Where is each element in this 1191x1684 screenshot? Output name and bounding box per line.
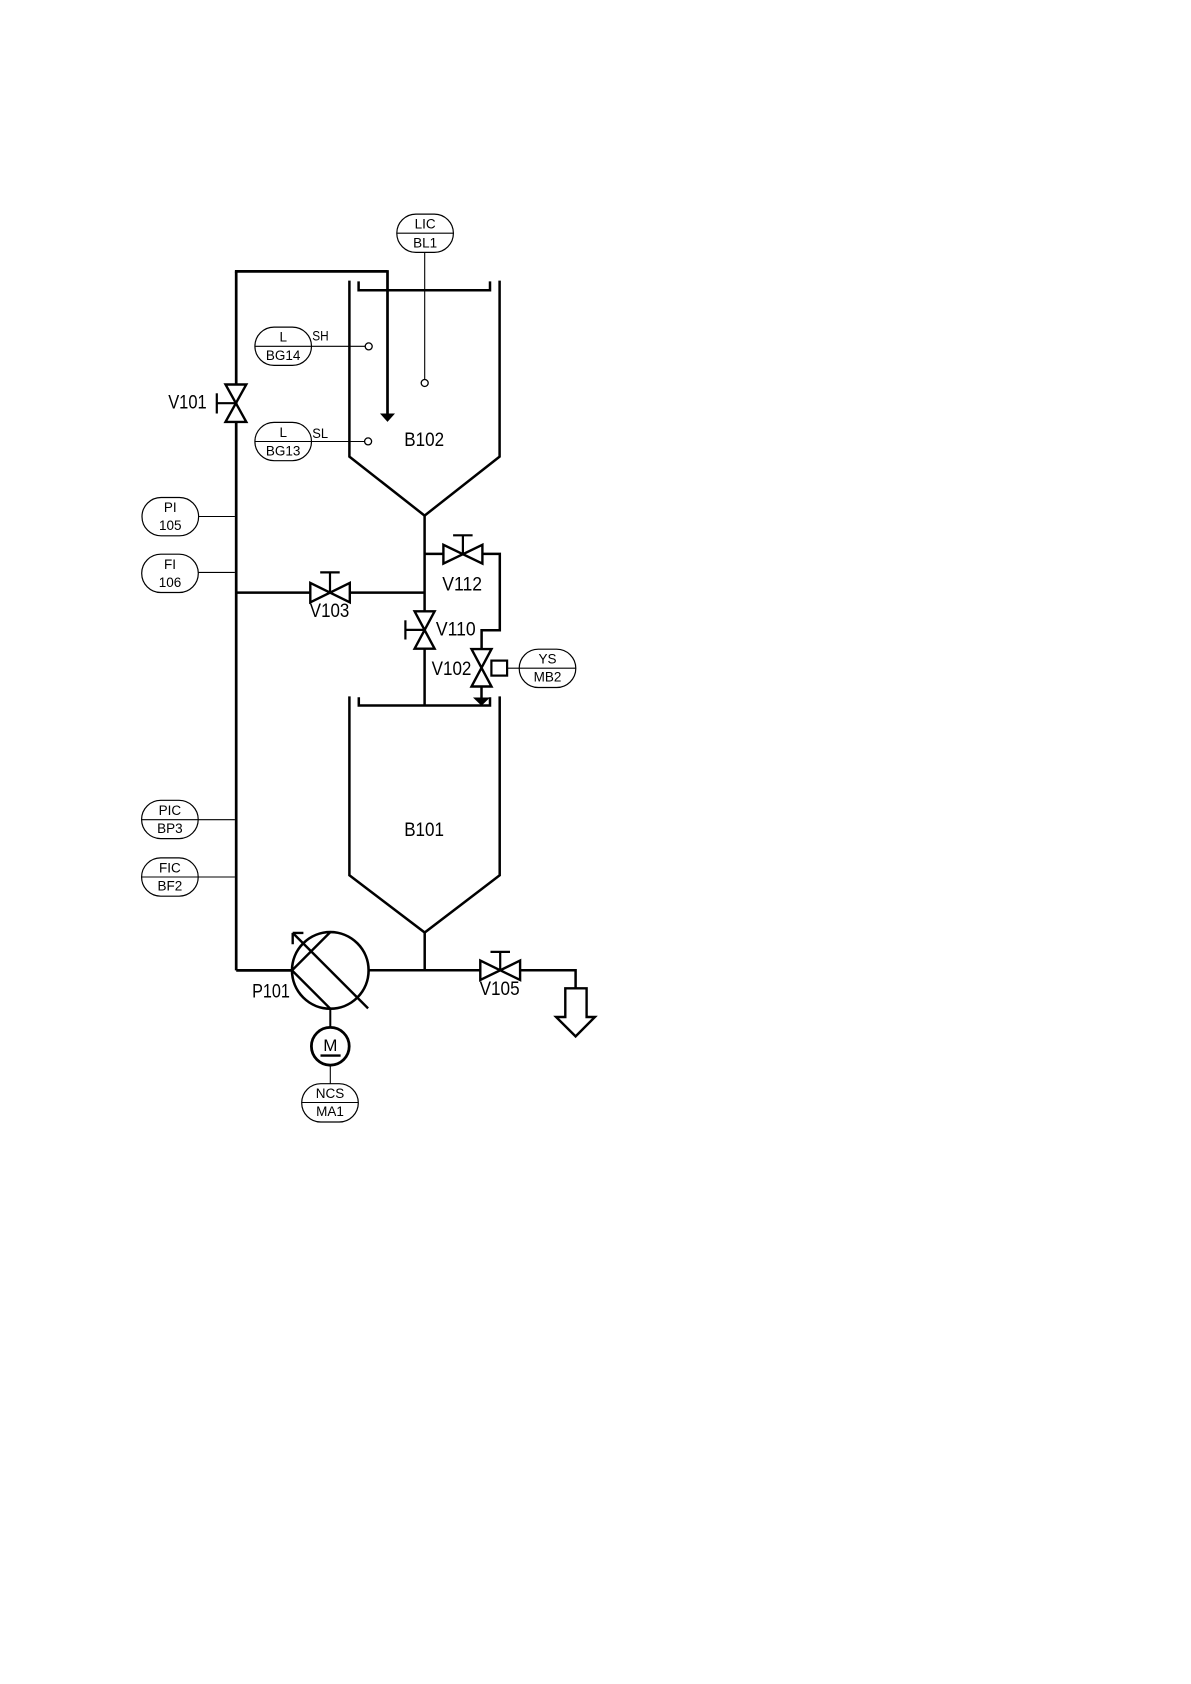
valve V102 <box>472 649 492 686</box>
valve V103 <box>310 572 350 602</box>
label V101 <box>168 393 207 414</box>
label V112 <box>442 575 482 596</box>
valve V110 <box>405 611 434 648</box>
instrument bubble LIC BL1 <box>397 214 454 386</box>
svg-text:BL1: BL1 <box>413 236 437 251</box>
wire: V103 branch horizontal <box>236 591 424 594</box>
svg-text:V103: V103 <box>310 601 350 622</box>
svg-text:BP3: BP3 <box>157 821 183 836</box>
svg-text:BG13: BG13 <box>266 443 301 458</box>
svg-text:V105: V105 <box>480 979 520 1000</box>
svg-text:105: 105 <box>159 518 182 533</box>
svg-text:M: M <box>323 1036 337 1055</box>
svg-text:FIC: FIC <box>159 860 181 875</box>
label V103 <box>310 601 350 622</box>
motor M <box>311 1009 349 1066</box>
svg-text:MA1: MA1 <box>316 1104 344 1119</box>
svg-text:V101: V101 <box>168 393 207 414</box>
label V102 <box>432 659 472 680</box>
instrument bubble L BG13 with SL <box>255 422 372 460</box>
actuator square of V102 <box>491 661 507 676</box>
instrument bubble FIC BF2 <box>142 858 235 896</box>
valve V112 <box>443 535 482 563</box>
tank B101 <box>349 696 499 932</box>
tank B102 <box>349 281 499 516</box>
valve V101 <box>217 385 247 422</box>
svg-text:V110: V110 <box>436 620 476 641</box>
wire: B102 outlet vertical <box>423 516 426 706</box>
wire: V105 to outfall <box>520 970 576 988</box>
svg-text:SH: SH <box>312 329 328 344</box>
svg-text:B102: B102 <box>404 430 444 451</box>
label B101 <box>404 820 444 841</box>
svg-text:V102: V102 <box>432 659 472 680</box>
instrument bubble NCS MA1 <box>302 1065 359 1122</box>
svg-text:BF2: BF2 <box>158 879 183 894</box>
valve V105 <box>480 952 520 980</box>
instrument bubble PI 105 <box>142 498 235 536</box>
outfall arrow <box>556 988 595 1036</box>
label P101 <box>252 981 290 1002</box>
svg-text:LIC: LIC <box>415 217 436 232</box>
label V110 <box>436 620 476 641</box>
wire: pump suction <box>236 969 292 972</box>
svg-text:MB2: MB2 <box>534 670 562 685</box>
svg-text:BG14: BG14 <box>266 348 301 363</box>
wire: feed line top horizontal <box>235 270 388 273</box>
svg-text:FI: FI <box>164 557 176 572</box>
instrument bubble L BG14 with SH <box>255 327 372 365</box>
svg-text:L: L <box>279 330 287 345</box>
svg-text:V112: V112 <box>442 575 482 596</box>
pump P101 <box>292 932 369 1009</box>
svg-text:106: 106 <box>159 575 182 590</box>
instrument bubble YS MB2 <box>507 649 576 687</box>
label B102 <box>404 430 444 451</box>
svg-text:PIC: PIC <box>159 803 182 818</box>
svg-text:NCS: NCS <box>316 1086 345 1101</box>
instrument bubble FI 106 <box>142 554 235 592</box>
svg-text:YS: YS <box>538 652 556 667</box>
wire: feed drop into B102 <box>380 270 395 422</box>
wire: V102 outlet into B101 with arrow <box>473 687 490 706</box>
svg-text:B101: B101 <box>404 820 444 841</box>
wire: main left pipe vertical <box>235 271 238 970</box>
instrument bubble PIC BP3 <box>142 800 235 838</box>
svg-text:L: L <box>279 425 287 440</box>
svg-text:P101: P101 <box>252 981 290 1002</box>
label V105 <box>480 979 520 1000</box>
wire: V112 branch <box>425 554 500 649</box>
svg-text:SL: SL <box>312 426 328 441</box>
wire: B101 outlet vertical <box>423 933 426 971</box>
svg-text:PI: PI <box>164 500 177 515</box>
wire: pump discharge to V105 <box>369 969 481 972</box>
